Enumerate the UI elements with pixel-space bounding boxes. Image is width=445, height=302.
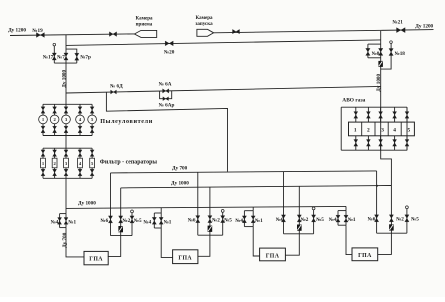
actuator flag below N2 (ГПА 1) [118,226,123,232]
svg-text:4: 4 [393,128,396,134]
svg-text:№ 6А: № 6А [159,81,172,87]
dust collector 1 vessel [39,115,48,124]
wire station bypass header (№6Д line) [66,86,381,93]
svg-text:№6: №6 [100,218,108,224]
svg-text:3: 3 [65,161,68,166]
АВО cell divider 4 [400,122,402,136]
wire discharge leg N2 (from Ду1000) ГПА 1 [120,188,122,236]
wire discharge bottom bar (ГПА 2) [198,234,223,236]
svg-text:3: 3 [65,117,68,122]
dust collector unit 2: outlet valve [54,124,56,136]
dust collector unit 2: inlet valve [54,104,56,115]
svg-text:5: 5 [91,161,94,166]
filter-separator unit 5: outlet valve [91,168,93,179]
svg-text:запуска: запуска [195,22,213,27]
svg-text:№21: №21 [392,19,403,25]
wire main outlet line Ду1200 (right) [214,30,434,33]
svg-text:3: 3 [381,128,384,134]
ГПА 4 unit box [352,248,378,261]
valve N1 (ГПА 2 suction) [159,217,163,224]
АВО fan unit box (sections 1-5) [349,122,415,136]
valve N2 (ГПА 2) [208,216,212,223]
dust collector unit 4: outlet valve [79,124,81,136]
wire collector Ду700 [111,171,377,173]
actuator flag below N2 (ГПА 2) [208,226,213,232]
dust collector unit 1: inlet valve [42,104,44,115]
wire main inlet line Ду1200 (left) [10,34,134,36]
wire collector Ду1000 (lower / suction) [66,206,346,208]
svg-text:№4: №4 [143,219,151,225]
АВО section 1 inlet valve [355,107,357,122]
wire dust-collector inlet manifold [43,103,92,105]
svg-text:ГПА: ГПА [178,255,192,261]
svg-text:№7р: №7р [80,55,91,61]
wire ГПА 2 discharge to valve group [198,235,210,256]
wire discharge bottom bar (ГПА 4) [377,232,407,234]
valve N2 (ГПА 1) [119,216,123,223]
valve N6Ар [163,97,169,101]
svg-text:№ 6Ар: № 6Ар [159,103,175,109]
АВО section 3 outlet valve [380,136,382,150]
wire filter-separator inlet manifold [43,147,92,149]
valve N5 (ГПА 1) [130,216,134,223]
dust collector unit 1: outlet valve [42,124,44,136]
dust collector 2 vessel [50,115,59,124]
АВО cell divider 2 [374,122,376,136]
wire suction drop to ГПА 2 [161,228,172,257]
wire bypass loop around valve N8 [368,43,381,45]
ГПА 1 unit box [84,251,108,264]
filter-separator unit 2: inlet valve [54,148,56,158]
wire bypass loop around valve N7 [66,49,77,63]
svg-text:№4: №4 [51,220,59,226]
АВО cell divider 1 [361,122,363,136]
svg-text:№1: №1 [68,220,76,226]
svg-text:Ду 700: Ду 700 [62,232,68,248]
wire АВО inlet manifold [341,106,407,108]
valve N6 (ГПА 1) [108,216,112,223]
svg-text:5: 5 [408,128,411,134]
dust collector 5 vessel [88,115,97,124]
valve N8 (on riser) [379,48,383,55]
dust collector unit 3: outlet valve [65,124,67,136]
svg-text:№2: №2 [396,217,404,223]
wire АВО return drop to collector [381,150,392,185]
vent valve N17 with stem [53,46,55,63]
dust collector unit 4: inlet valve [79,104,81,115]
svg-text:№4: №4 [329,217,337,223]
dust collector unit 3: inlet valve [65,104,67,115]
valve N6 (ГПА 4) [375,215,379,222]
АВО section 2 inlet valve [367,107,369,122]
valve N2 (ГПА 4) [389,215,393,222]
svg-text:Пылеуловители: Пылеуловители [100,119,153,125]
svg-text:5: 5 [91,117,94,122]
valve N1 (ГПА 3 suction) [251,216,255,223]
wire suction drop to ГПА 3 [253,227,259,256]
svg-text:№4: №4 [235,218,243,224]
vent circle above N17 [53,43,56,46]
valve N20 [165,41,173,46]
valve N19 [36,33,44,38]
wire bypass drop to Ду700 collector [106,92,227,171]
svg-text:Ду 1000: Ду 1000 [62,69,68,87]
wire discharge leg N6 (from Ду700) ГПА 3 [283,172,285,234]
svg-text:№1: №1 [348,217,356,223]
svg-text:№6: №6 [368,217,376,223]
svg-text:ГПА: ГПА [266,253,280,259]
wire discharge bottom bar (ГПА 3) [284,233,314,235]
svg-text:ГПА: ГПА [358,253,372,259]
ГПА 4: suction drop and valve frame N4/N1 [345,206,347,210]
wire filter-separator outlet manifold [43,177,92,179]
filter-separator unit 5: inlet valve [91,148,93,158]
svg-text:ГПА: ГПА [89,256,103,262]
svg-text:№5: №5 [411,217,419,223]
guard valve (unlabeled, left) [109,32,116,37]
svg-text:№18: №18 [395,51,406,57]
actuator flag below N2 (ГПА 4) [389,224,394,230]
filter-separator 4 vessel [78,158,83,168]
wire АВО right downcomer [406,107,408,150]
svg-text:№2: №2 [122,218,130,224]
АВО section 3 inlet valve [380,107,382,122]
svg-text:№2: №2 [212,218,220,224]
wire discharge leg N6 (from Ду700) ГПА 1 [110,173,112,236]
ГПА 1: suction drop and valve frame N4/N1 [60,213,66,215]
svg-text:№20: №20 [164,50,175,56]
wire collector Ду1000 (upper) [121,186,392,188]
wire suction drop to ГПА 1 [66,228,84,257]
dust collector unit 5: outlet valve [91,124,93,136]
actuator flag on V2 [378,61,383,67]
АВО section 5 outlet valve [406,136,408,150]
wire dust-collector outlet manifold [43,135,92,137]
vent valve N18 with stem [381,43,391,69]
АВО section 5 inlet valve [406,107,408,122]
svg-text:№8: №8 [372,51,380,57]
dust collector unit 5: inlet valve [91,104,93,115]
filter-separator 5 vessel [90,158,95,168]
valve N1 (ГПА 4 suction) [344,215,348,222]
svg-text:2: 2 [367,128,370,134]
ГПА 3: suction drop and valve frame N4/N1 [252,207,254,211]
valve N5 (ГПА 4) [405,215,409,222]
valve N4 (ГПА 2 suction) [152,217,156,224]
ГПА 3 unit box [260,248,286,261]
svg-text:№7: №7 [57,54,65,60]
svg-text:Ду 1000: Ду 1000 [171,181,189,187]
svg-text:1: 1 [354,128,357,134]
vent circle above N18 [390,41,393,44]
wire discharge leg N2 (from Ду1000) ГПА 2 [209,187,211,235]
АВО section 4 outlet valve [394,136,396,150]
valve N7р (bypass) [75,53,79,60]
svg-text:4: 4 [79,161,82,166]
valve N6 (ГПА 3) [281,215,285,222]
valve N4 (ГПА 3 suction) [242,216,246,223]
svg-text:АВО газа: АВО газа [342,97,365,103]
valve N2 (ГПА 3) [297,215,301,222]
wire discharge bottom bar (ГПА 1) [111,235,133,237]
svg-text:Ду 1200: Ду 1200 [8,28,26,34]
wire ГПА 1 discharge to valve group [108,236,121,257]
actuator flag below N2 (ГПА 3) [297,225,302,231]
filter-separator unit 3: inlet valve [65,148,67,158]
ГПА 2 unit box [173,250,198,264]
svg-text:1: 1 [42,161,45,166]
svg-text:№ 6Д: № 6Д [110,84,123,90]
valve N8 pair (bypass leg) [366,48,370,55]
wire discharge leg N2 (from Ду1000) ГПА 3 [298,186,300,234]
vent leg N5 with circle (ГПА 2) [222,212,224,235]
vent leg N5 with circle (ГПА 1) [131,213,133,236]
wire suction drop to ГПА 4 [346,225,352,254]
vent leg N5 with circle (ГПА 4) [406,209,408,234]
wire ГПА 3 discharge to valve group [285,234,299,255]
svg-text:№6: №6 [276,217,284,223]
dust collector 3 vessel [62,115,71,124]
wire ГПА 4 discharge to valve group [378,233,392,254]
filter-separator 1 vessel [41,158,46,168]
svg-text:№17: №17 [43,54,54,60]
svg-text:Ду 1000: Ду 1000 [78,201,96,207]
filter-separator unit 1: inlet valve [42,148,44,158]
valve N4 (ГПА 1 suction) [58,218,62,225]
valve N7 (on riser) [64,53,68,60]
svg-text:Ду 1200: Ду 1200 [415,23,433,29]
svg-text:4: 4 [79,117,82,122]
svg-text:Фильтр - сепараторы: Фильтр - сепараторы [100,159,158,165]
АВО section 2 outlet valve [367,136,369,150]
wire discharge leg N6 (from Ду700) ГПА 2 [197,172,199,235]
filter-separator unit 3: outlet valve [65,168,67,179]
АВО cell divider 3 [387,122,389,136]
wire АВО outlet manifold [341,149,407,151]
ГПА 2: suction drop and valve frame N4/N1 [160,208,162,213]
svg-text:2: 2 [53,161,56,166]
wire АВО left downcomer [340,107,342,150]
valve N5 (ГПА 3) [312,215,316,222]
svg-text:№2: №2 [301,217,309,223]
АВО section 4 inlet valve [394,107,396,122]
junction dot on upper Ду1000 collector [376,185,378,187]
svg-text:Ду 1000: Ду 1000 [376,73,382,91]
wire bypass loop around N6А [160,91,172,99]
wire vertical V1 Ду1000 (station inlet riser) [65,35,67,104]
valve N4 (ГПА 4 suction) [336,215,340,222]
filter-separator 2 vessel [52,158,57,168]
svg-text:2: 2 [53,117,56,122]
valve N6Д [111,90,117,94]
wire bypass line B (№20 line) [66,40,381,46]
valve N6А [163,89,169,93]
wire discharge leg N6 (from Ду700) ГПА 4 [376,171,378,233]
svg-text:№6: №6 [188,218,196,224]
chamber: Камера запуска (pig launcher) [197,29,214,36]
vent leg N5 with circle (ГПА 3) [313,210,315,234]
svg-text:№5: №5 [224,218,232,224]
wire vertical V2 Ду1000 (to АВО) [380,31,382,151]
svg-text:1: 1 [42,117,45,122]
valve N21 [397,28,406,33]
chamber: Камера приема (pig receiver) [134,30,156,37]
dust collector 4 vessel [76,115,85,124]
svg-text:№19: №19 [32,28,43,34]
svg-text:№1: №1 [255,218,263,224]
filter-separator unit 4: outlet valve [79,168,81,179]
svg-text:Камера: Камера [136,16,153,21]
filter-separator 3 vessel [64,158,69,168]
svg-text:№1: №1 [164,219,172,225]
svg-text:№5: №5 [134,218,142,224]
valve N5 (ГПА 2) [221,216,225,223]
svg-text:Ду 700: Ду 700 [172,165,188,171]
guard valve (unlabeled, right) [233,29,240,33]
filter-separator unit 4: inlet valve [79,148,81,158]
АВО section 1 outlet valve [355,136,357,150]
wire V1 between banks [65,136,67,149]
valve N6 (ГПА 2) [196,216,200,223]
svg-text:№5: №5 [316,217,324,223]
valve N1 (ГПА 1 suction) [64,218,68,225]
filter-separator unit 2: outlet valve [54,168,56,179]
filter-separator unit 1: outlet valve [42,168,44,179]
svg-text:приема: приема [136,22,153,27]
wire discharge leg N2 (from Ду1000) ГПА 4 [390,186,392,234]
wire drain to Ду1000 collector [65,178,67,213]
svg-text:Камера: Камера [196,16,213,21]
